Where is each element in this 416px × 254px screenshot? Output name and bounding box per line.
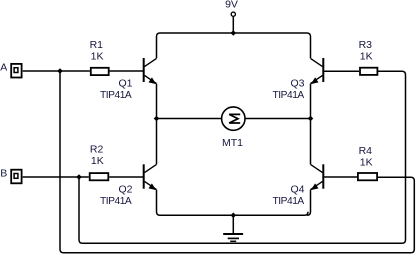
terminal A: [11, 64, 21, 78]
svg-text:R2: R2: [90, 143, 104, 155]
svg-text:Q2: Q2: [119, 183, 133, 195]
svg-text:A: A: [0, 62, 7, 74]
wire Q3 base to R3: [323, 70, 359, 72]
svg-text:R4: R4: [359, 145, 373, 157]
resistor R4: [358, 173, 377, 180]
wire bottom rail Q2 emitter to Q4 emitter: [157, 190, 311, 216]
transistor Q2: [144, 164, 157, 190]
wire R1 to Q1 base: [110, 70, 144, 72]
transistor Q4: [311, 164, 324, 190]
wire Q2 collector from motor rail: [156, 119, 158, 165]
wire Q3 emitter to motor rail: [310, 84, 312, 119]
junction 9V rail: [231, 30, 237, 36]
junction node A: [57, 68, 63, 74]
wire input B to R2: [23, 176, 89, 178]
wire B loop to R3: [79, 71, 406, 243]
wire 9V supply lead: [232, 16, 234, 33]
wire ground lead: [232, 215, 234, 234]
svg-text:1K: 1K: [360, 156, 373, 168]
resistor R2: [90, 173, 109, 180]
svg-text:B: B: [0, 168, 7, 180]
junction motor rail right: [308, 116, 314, 122]
svg-text:TIP41A: TIP41A: [273, 196, 305, 207]
junction node B: [76, 174, 82, 180]
svg-text:Q4: Q4: [291, 183, 305, 195]
svg-text:1K: 1K: [91, 155, 104, 167]
wire Q1 emitter to motor rail: [156, 84, 158, 119]
svg-text:TIP41A: TIP41A: [273, 90, 305, 101]
wire Q4 base to R4: [323, 176, 357, 178]
wire A loop to R4: [60, 71, 414, 253]
wire motor rail left: [157, 118, 222, 120]
ground: [223, 234, 243, 241]
resistor R1: [91, 68, 109, 75]
motor MT1: [222, 107, 245, 130]
power 9V terminal: [231, 12, 235, 16]
wire Q4 collector from motor rail: [310, 119, 312, 165]
svg-text:1K: 1K: [91, 50, 104, 62]
svg-text:R1: R1: [90, 39, 104, 51]
resistor R3: [360, 68, 377, 75]
wire top rail 9V: [157, 33, 311, 58]
transistor Q1: [144, 58, 157, 84]
svg-text:TIP41A: TIP41A: [100, 196, 132, 207]
terminal B: [11, 170, 21, 184]
svg-text:MT1: MT1: [222, 137, 243, 149]
svg-text:TIP41A: TIP41A: [100, 90, 132, 101]
svg-text:R3: R3: [359, 39, 373, 51]
wire R2 to Q2 base: [109, 176, 143, 178]
transistor Q3: [311, 58, 324, 84]
svg-text:Q1: Q1: [119, 77, 133, 89]
wire input A to R1: [23, 70, 90, 72]
junction ground rail: [231, 213, 237, 219]
junction motor rail left: [154, 116, 160, 122]
svg-text:1K: 1K: [360, 50, 373, 62]
svg-text:9V: 9V: [225, 0, 238, 10]
wire motor rail right: [245, 118, 311, 120]
svg-text:Q3: Q3: [291, 77, 305, 89]
